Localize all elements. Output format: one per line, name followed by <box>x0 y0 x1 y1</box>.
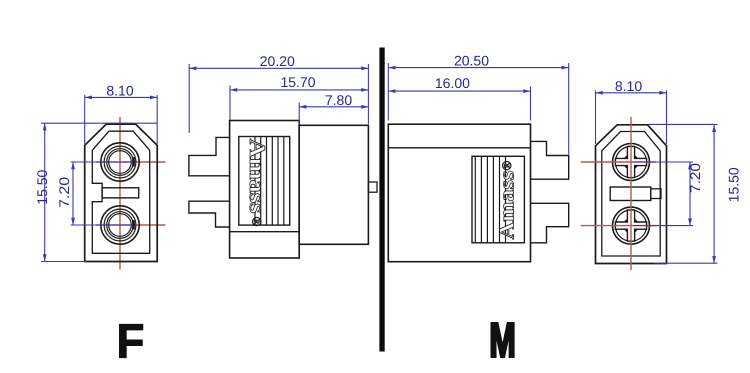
dim 7.20 line <box>689 162 691 226</box>
ribbed panel <box>472 156 524 243</box>
dim 16.00 line <box>388 90 530 92</box>
svg-text:M: M <box>489 315 515 368</box>
top pin cross <box>615 146 646 177</box>
front block <box>299 125 368 244</box>
dim 20.50 extension lines <box>387 63 389 121</box>
top pin circles <box>613 144 650 181</box>
body inner outline with key notch <box>92 131 149 253</box>
top socket slit <box>132 157 135 166</box>
dim 8.10 line <box>596 92 667 94</box>
dim 20.50 line <box>388 67 568 69</box>
top socket circles <box>101 143 139 181</box>
bottom pin circles <box>613 207 650 244</box>
dim 15.70 extension line <box>229 86 231 120</box>
ribs <box>475 156 505 243</box>
middle slot <box>610 187 651 201</box>
svg-text:Amass: Amass <box>245 139 270 214</box>
middle slot <box>102 188 139 198</box>
bottom solder tab <box>531 203 569 243</box>
mid body <box>230 121 300 259</box>
body <box>388 124 530 262</box>
svg-text:20.50: 20.50 <box>454 52 489 68</box>
svg-text:15.70: 15.70 <box>280 74 315 90</box>
dim 7.80 extension line <box>298 103 300 125</box>
svg-text:7.80: 7.80 <box>325 92 352 108</box>
inner step line <box>388 147 530 149</box>
dim 15.50 line <box>713 125 715 263</box>
red horizontal centerline top hole <box>96 161 166 163</box>
dim 16.00 extension line <box>530 87 532 121</box>
top solder tab <box>189 137 230 175</box>
body inner outline <box>602 132 660 257</box>
svg-text:15.50: 15.50 <box>726 167 742 202</box>
svg-text:7.20: 7.20 <box>56 177 72 208</box>
dim 15.50 line <box>44 123 46 261</box>
ribbed panel <box>239 137 290 226</box>
dim 15.50 extension lines <box>648 123 718 125</box>
bottom socket slit <box>132 220 135 229</box>
svg-text:®: ® <box>250 217 265 227</box>
body outer outline <box>85 124 158 261</box>
dim 7.20 line <box>72 162 74 225</box>
svg-text:16.00: 16.00 <box>435 75 470 91</box>
red horizontal centerline top <box>581 161 656 163</box>
svg-text:8.10: 8.10 <box>615 78 642 94</box>
body outer outline <box>596 125 667 264</box>
ribs <box>255 137 284 226</box>
bottom solder tab <box>189 201 230 227</box>
dim 20.20 line <box>189 67 368 69</box>
slot side tab <box>651 189 661 199</box>
red vertical centerline <box>119 117 121 270</box>
dim 8.10 extension lines <box>595 90 597 144</box>
svg-text:8.10: 8.10 <box>106 83 133 99</box>
svg-text:20.20: 20.20 <box>260 53 295 69</box>
red horizontal centerline bottom hole <box>96 224 166 226</box>
side bump <box>368 182 377 192</box>
svg-text:Amass: Amass <box>495 171 519 240</box>
svg-text:15.50: 15.50 <box>34 169 50 204</box>
dim 8.10 extension lines <box>84 95 86 144</box>
dim 8.10 line <box>85 96 158 98</box>
dim 7.80 line <box>299 106 368 108</box>
red vertical centerline <box>630 117 632 270</box>
dim 7.20 extension lines <box>634 161 693 163</box>
bottom pin cross <box>615 210 646 241</box>
dim 7.20 extension lines <box>71 161 134 163</box>
svg-text:®: ® <box>499 160 514 170</box>
bottom socket circles <box>101 206 139 244</box>
svg-text:F: F <box>117 316 145 369</box>
top solder tab <box>531 141 569 179</box>
dim 20.20 extension lines <box>188 64 190 133</box>
parting line <box>230 231 300 233</box>
svg-text:7.20: 7.20 <box>687 163 703 193</box>
dim 15.70 line <box>230 89 368 91</box>
dim 15.50 extension lines <box>41 122 157 124</box>
red horizontal centerline bottom <box>581 225 656 227</box>
